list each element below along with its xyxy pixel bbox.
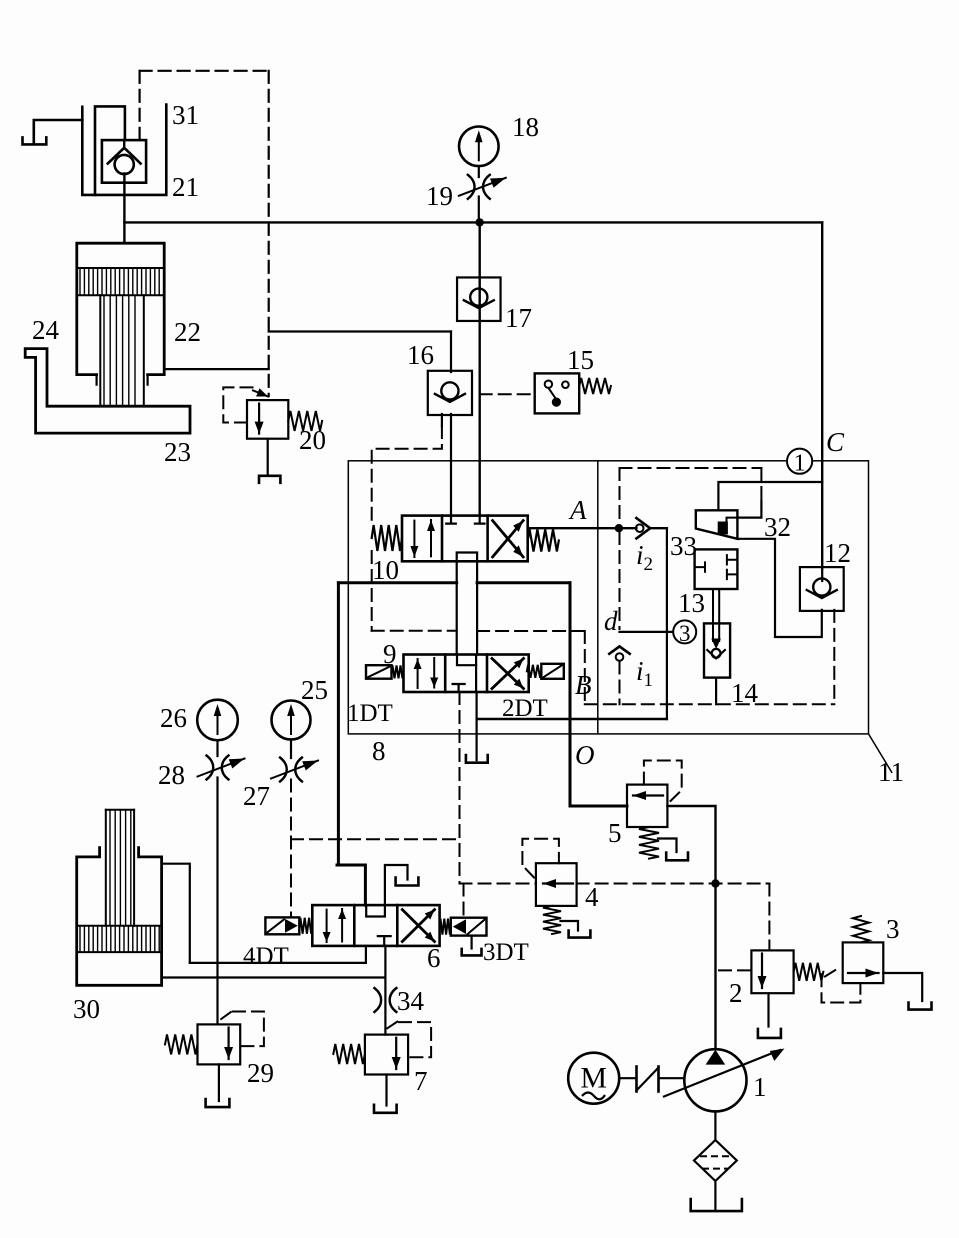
svg-text:20: 20 — [299, 425, 326, 455]
pilot drop to 3DT (dashed) — [463, 884, 465, 918]
wire check 16 to valve 10 A-port — [450, 414, 452, 516]
pilot valve 9 body — [404, 655, 529, 693]
pilot line continues below spring (dashed) — [371, 551, 373, 631]
svg-text:31: 31 — [172, 100, 199, 130]
valve 7 spring — [333, 1044, 365, 1064]
valve 2 to valve 3 pilot (dashed) — [825, 967, 841, 977]
svg-text:27: 27 — [243, 781, 270, 811]
svg-text:12: 12 — [824, 538, 851, 568]
press cylinder 22 body — [77, 243, 164, 374]
svg-text:O: O — [575, 740, 595, 770]
valve 9 left spring — [392, 665, 404, 678]
wire rod-side run to valve 6 B — [190, 962, 366, 964]
solenoid 1DT — [366, 665, 392, 679]
wire valve 7 drain — [385, 1075, 387, 1106]
platen 23 and bracket 24 outline — [25, 349, 190, 434]
svg-text:24: 24 — [32, 315, 60, 345]
block 11 leader line — [869, 734, 892, 772]
wire feedback line 33 bottom jog — [477, 718, 667, 720]
wire C line right side down — [821, 222, 823, 568]
wire pilot channel left — [456, 561, 458, 654]
pilot box bottom edge (dashed) — [585, 703, 835, 705]
wire feedback line 33 down — [666, 528, 668, 719]
valve 3 spring — [853, 916, 869, 942]
cylinder 22 ram rod — [100, 295, 144, 405]
svg-text:3: 3 — [886, 914, 900, 944]
svg-text:8: 8 — [372, 736, 386, 766]
svg-text:21: 21 — [172, 172, 199, 202]
wire check 16 feed down — [450, 332, 452, 373]
valve 6 left-position down arrow — [323, 910, 331, 942]
junction dot at gauge 18 tap — [475, 218, 483, 226]
svg-text:1: 1 — [794, 451, 806, 477]
pilot drop to valve 2 (dashed) — [768, 884, 770, 951]
valve 5 pilot loop (dashed) — [644, 761, 682, 802]
valve 9 left-position up arrow — [414, 659, 422, 688]
svg-text:19: 19 — [426, 181, 453, 211]
valve 6 centre blocked bottom port — [378, 936, 391, 946]
valve 3 lower pilot loop (dashed) — [822, 974, 861, 1002]
proportional solenoid 3DT — [451, 918, 487, 936]
wire valve 29 drain — [218, 1064, 220, 1101]
wire long supply drop to valve 6 — [337, 583, 340, 865]
valve 21 seat stem — [123, 140, 125, 148]
directional valve 6 body — [312, 905, 439, 946]
pilot branch B dashed horizontal — [477, 630, 585, 632]
svg-text:B: B — [575, 670, 592, 700]
wire gauge 25 stem — [290, 740, 292, 759]
cylinder 30 rod — [106, 810, 134, 926]
wire gauge 18 to throttle 19 — [478, 166, 480, 177]
valve 6 left-position up arrow — [338, 909, 346, 942]
svg-text:17: 17 — [505, 303, 532, 333]
wire throttle 19 to main line — [478, 197, 480, 223]
cylinder 30 piston band — [77, 926, 162, 952]
svg-text:14: 14 — [731, 678, 759, 708]
svg-text:4DT: 4DT — [243, 943, 289, 970]
valve 4 drain step — [561, 921, 579, 931]
sensing line to pressure switch 15 (dashed) — [480, 393, 535, 395]
torque motor 32 armature (filled) — [718, 522, 728, 535]
wire pump suction — [714, 1111, 716, 1140]
wire main line down to check 17 and valve 10 P — [479, 222, 481, 515]
proportional solenoid 4DT — [265, 917, 299, 934]
valve 5 spring — [639, 827, 659, 859]
valve 9 centre A to drain path — [457, 655, 476, 666]
svg-text:23: 23 — [164, 437, 191, 467]
relief valve 29 body — [198, 1024, 241, 1064]
wire from control line to check 16 — [269, 330, 451, 332]
wire B branch drop — [569, 583, 572, 806]
pilot sensing line d lower (dashed) — [619, 662, 621, 705]
valve 10 centre bottom bridge — [457, 553, 477, 562]
main directional valve 10 body — [402, 516, 528, 562]
svg-text:11: 11 — [878, 757, 904, 787]
throttle valve 27 — [271, 758, 318, 782]
valve 6 tank cup — [396, 878, 419, 886]
wire gauge 26 line to valve 29 — [216, 778, 218, 1025]
reducing valve 4 body — [536, 863, 577, 906]
wire torque motor 32 return to valve 12 — [737, 539, 821, 637]
wire 3DT drain — [471, 936, 473, 949]
valve 9 drain tank — [466, 755, 488, 763]
wire valve 6 T to tank — [385, 865, 408, 905]
pilot P supply to valve 9 (dashed) — [459, 692, 461, 884]
svg-text:2DT: 2DT — [502, 695, 548, 722]
wire to node 3 — [620, 631, 674, 633]
svg-text:M: M — [580, 1062, 607, 1095]
svg-text:5: 5 — [608, 818, 622, 848]
valve 2 drain tank — [758, 1029, 781, 1038]
relief valve 7 body — [365, 1035, 408, 1075]
valve 9 divider left — [444, 655, 447, 693]
valve 2 flow arrow — [758, 954, 767, 989]
wire cylinder 30 rod-side port — [162, 864, 190, 963]
pressure switch 15 body — [535, 373, 580, 413]
valve 7 drain tank — [374, 1105, 397, 1113]
valve 10 right spring — [528, 530, 559, 552]
pilot box top edge (dashed) — [620, 467, 762, 469]
valve 4 drain tank — [569, 931, 591, 938]
valve 9 centre blocked P port — [453, 684, 465, 692]
junction A line with d line — [615, 524, 623, 532]
switch 15 spring — [579, 378, 611, 394]
valve 6 cross-position arrows — [402, 910, 434, 942]
valve 6 divider left — [353, 905, 356, 946]
pilot tap to valve 2 (dashed) — [719, 969, 751, 971]
svg-text:16: 16 — [407, 340, 434, 370]
pilot line vertical drop x=268.7 (dashed) — [268, 71, 270, 396]
pilot rail valve 4 to pump line (dashed) — [577, 883, 770, 885]
valve 10 centre blocked port P — [475, 516, 485, 524]
pilot sensing line d middle (dashed) — [619, 532, 621, 629]
valve 3 flow arrow — [848, 969, 879, 978]
nozzle symbol i1 — [609, 646, 629, 660]
svg-text:18: 18 — [512, 112, 539, 142]
switch 15 contact blade — [548, 388, 556, 399]
motor-pump coupling — [619, 1067, 684, 1092]
svg-text:34: 34 — [397, 986, 425, 1016]
svg-text:28: 28 — [158, 760, 185, 790]
svg-text:30: 30 — [73, 994, 100, 1024]
valve 20 pilot arrow to control line — [253, 388, 268, 396]
valve 9 cross-position arrows — [492, 659, 524, 689]
node point 1 (circled) — [787, 449, 812, 477]
svg-text:7: 7 — [414, 1066, 428, 1096]
check 16 pilot stub — [441, 414, 443, 426]
valve 6 divider right — [396, 905, 399, 946]
svg-text:1DT: 1DT — [347, 700, 393, 727]
wire filter to tank — [714, 1181, 716, 1209]
wire valve 9 drain down — [476, 692, 478, 760]
amplifier 13 right port mark upper — [727, 555, 738, 564]
valve 6 left spring — [299, 918, 312, 934]
pilot branch from B side (dashed) — [584, 631, 586, 704]
valve 7 flow arrow — [392, 1038, 401, 1069]
electric motor M — [568, 1053, 619, 1104]
servo amplifier 13 body — [695, 549, 738, 589]
block 11 internal partition — [597, 461, 599, 734]
valve 20 pilot loop (dashed) — [223, 387, 253, 422]
valve 5 drain step — [658, 839, 677, 853]
valve 20 spring — [288, 411, 322, 431]
cylinder 30 body — [77, 848, 162, 986]
pilot relief valve 3 body — [843, 942, 884, 983]
switch 15 contact pivot — [545, 381, 552, 388]
svg-text:22: 22 — [174, 317, 201, 347]
valve 20 flow arrow — [255, 404, 264, 434]
wire valve 21 outlet down to cylinder 22 — [123, 174, 125, 244]
valve 10 divider right — [486, 516, 489, 562]
valve 4 spring — [543, 906, 561, 934]
amplifier 13 right port mark lower — [727, 570, 738, 579]
valve 29 drain tank — [206, 1099, 230, 1107]
svg-text:32: 32 — [764, 512, 791, 542]
valve 6 centre P-T bridge — [366, 905, 385, 916]
amplifier 13 left port mark — [695, 562, 705, 571]
wire valve 6 port B down — [365, 946, 367, 963]
svg-text:2: 2 — [729, 978, 743, 1008]
svg-text:C: C — [826, 427, 845, 457]
pilot line into valve 21 (dashed) — [139, 71, 141, 140]
node point 3 (circled) — [673, 620, 696, 645]
svg-text:4: 4 — [585, 882, 599, 912]
wire C into valve 12 — [821, 568, 823, 581]
valve 10 left-position up arrow — [427, 520, 435, 556]
torque motor 32 flapper link — [727, 518, 738, 522]
valve 9 right spring — [527, 665, 541, 678]
check valve 14 body — [704, 623, 730, 677]
valve 29 pilot loop (dashed) — [221, 1011, 264, 1047]
wire A line from valve 10 — [528, 527, 637, 529]
valve 7 pilot loop (dashed) — [387, 1021, 431, 1058]
servo block 11 frame — [348, 461, 868, 734]
wire gauge 26 stem — [216, 740, 218, 756]
pressure gauge 18 — [459, 127, 499, 167]
wire into torque motor 32 right port — [737, 501, 761, 518]
valve 5 flow arrow — [633, 791, 663, 800]
valve 5 drain tank — [666, 853, 688, 861]
svg-text:26: 26 — [160, 703, 187, 733]
wire valve 2 drain — [767, 993, 769, 1026]
svg-text:6: 6 — [427, 943, 441, 973]
pilot box right drop (dashed) — [760, 468, 762, 501]
valve 2 spring — [794, 963, 824, 981]
pilot line top run (dashed) — [140, 70, 269, 72]
valve 3 outlet tank — [909, 1003, 932, 1010]
valve 10 cross-position arrows — [493, 521, 524, 557]
sequence valve 5 body — [627, 785, 667, 827]
wire torque motor 32 supply from C — [718, 482, 822, 510]
pilot pressure rail (dashed) — [291, 838, 460, 840]
pilot rail to valve 4 (dashed) — [460, 883, 536, 885]
valve 10 left spring — [372, 525, 402, 551]
pressure gauge 26 — [197, 700, 238, 741]
check valve 14 ball — [712, 649, 721, 658]
suction filter — [694, 1140, 737, 1181]
svg-text:33: 33 — [670, 531, 697, 561]
throttle valve 28 — [198, 756, 245, 780]
wire cylinder 22 rod-side port — [164, 368, 269, 370]
wire valve 3 outlet to tank — [883, 973, 922, 1001]
valve 20 drain tank — [259, 476, 280, 483]
valve 6 right spring — [440, 919, 451, 935]
svg-text:25: 25 — [301, 675, 328, 705]
svg-text:10: 10 — [372, 555, 399, 585]
valve 20 body — [247, 400, 288, 439]
variable pump 1 — [664, 1049, 784, 1112]
check valve 12 — [800, 567, 844, 611]
pressure gauge 25 — [272, 701, 311, 740]
throttle valve 19 — [459, 175, 506, 199]
valve 4 flow arrow — [543, 879, 573, 888]
svg-text:d: d — [604, 606, 618, 636]
pilot sensing line d upper (dashed) — [619, 468, 621, 524]
svg-text:13: 13 — [678, 588, 705, 618]
fixed orifice 34 — [374, 988, 396, 1012]
wire valve 10 tank line left segment — [338, 581, 456, 584]
wire valve 6 port T2 down to throttle 34 — [384, 946, 386, 1035]
wire cylinder 30 piston-side line — [162, 976, 386, 978]
svg-text:15: 15 — [567, 345, 594, 375]
prefill valve 21 poppet ball — [115, 155, 134, 174]
wire A line to feedback — [650, 527, 667, 529]
wire valve 5 feed — [570, 805, 627, 808]
svg-text:3DT: 3DT — [483, 939, 529, 966]
wire spool channel 13 to 14 — [711, 589, 721, 649]
svg-text:9: 9 — [383, 639, 397, 669]
cylinder 22 gland steps — [97, 375, 148, 385]
nozzle symbol i2 — [636, 518, 650, 538]
valve 4 pilot loop (dashed) — [522, 839, 559, 878]
main reservoir — [691, 1199, 742, 1211]
valve 9 divider right — [486, 655, 489, 693]
tank 31 inner wall — [95, 106, 125, 194]
tank cup under bracket — [23, 137, 47, 144]
switch 15 contact terminal — [562, 381, 569, 388]
pilot line to pilot valve port (dashed) — [372, 630, 457, 632]
pilot line from check 16 to valve 10 spring end (dashed) — [372, 426, 442, 524]
3DT drain tank — [462, 949, 482, 956]
pilot-operated check valve 16 — [428, 371, 472, 415]
check valve 14 seat — [707, 650, 725, 658]
valve 29 flow arrow — [224, 1028, 233, 1060]
svg-text:29: 29 — [247, 1058, 274, 1088]
wire valve 5 outlet to pump line — [667, 806, 715, 879]
svg-text:A: A — [568, 495, 587, 525]
gauge 25 sensing line (dashed) — [290, 780, 292, 918]
wire P jog into valve 6 — [337, 865, 365, 905]
wire check 14 drain to pilot box — [715, 678, 717, 705]
prefill valve 21 body — [102, 140, 146, 183]
valve 10 divider left — [441, 516, 444, 562]
switch 15 contact dot — [552, 398, 561, 407]
torque motor 32 housing — [696, 510, 738, 539]
svg-text:3: 3 — [679, 621, 691, 646]
valve 10 centre blocked port A — [446, 516, 456, 524]
cylinder 22 piston band — [77, 268, 164, 295]
valve 10 left-position down arrow — [410, 521, 418, 557]
wire main pressure line y=222 — [124, 221, 822, 223]
junction pilot rail and pump line — [711, 879, 719, 887]
wire valve 10 tank line right segment — [477, 581, 570, 584]
wire valve 20 drain — [267, 439, 269, 476]
relief valve 2 body — [751, 950, 793, 993]
wire pump pressure riser — [714, 884, 716, 1050]
valve 12 pilot drop (dashed) — [833, 610, 835, 704]
valve 9 centre through line — [475, 655, 477, 693]
solenoid 2DT — [541, 664, 564, 679]
prefill valve 21 seat — [108, 148, 141, 164]
wire pilot channel right — [476, 561, 478, 654]
check valve 17 — [457, 277, 501, 321]
valve 29 spring — [165, 1034, 198, 1054]
wire bracket arm to valve 21 — [34, 120, 83, 143]
valve 9 left-position down arrow — [430, 658, 438, 688]
svg-text:1: 1 — [753, 1072, 767, 1102]
tank 31 outer shell — [82, 105, 166, 195]
